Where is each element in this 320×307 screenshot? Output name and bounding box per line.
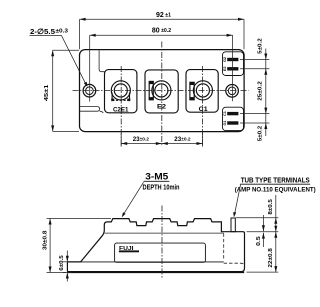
- tab pin: [231, 218, 235, 232]
- svg-text:5±0.2: 5±0.2: [258, 38, 264, 54]
- tab G2: [227, 58, 238, 61]
- dimension 80±0.2: [90, 35, 233, 101]
- svg-text:92 ±1: 92 ±1: [156, 12, 171, 19]
- tab C1: [227, 112, 238, 115]
- dimension 22±0.8: [247, 232, 279, 272]
- svg-text:23±0.2: 23±0.2: [133, 136, 150, 143]
- left end interior lines: [80, 50, 105, 113]
- dimension right 5/25/5: [240, 49, 269, 137]
- svg-text:3-M5: 3-M5: [145, 171, 168, 181]
- svg-text:(AMP NO.110 EQUIVALENT): (AMP NO.110 EQUIVALENT): [235, 187, 316, 194]
- svg-text:C1: C1: [199, 106, 208, 113]
- terminal block C1: [186, 70, 218, 113]
- mounting hole right: [226, 85, 239, 98]
- side centerline: [161, 206, 163, 278]
- dimension 45±1: [53, 50, 79, 131]
- svg-text:TUB TYPE TERMINALS: TUB TYPE TERMINALS: [241, 176, 310, 185]
- svg-text:2-∅5.5: 2-∅5.5: [30, 27, 55, 36]
- dimension 30±0.8: [47, 219, 112, 273]
- housing parting line: [105, 232, 224, 234]
- baseplate bottom thick edge: [67, 271, 244, 273]
- label plate: [115, 243, 206, 262]
- terminal block C2E1: [105, 70, 137, 113]
- housing outline: [67, 219, 244, 272]
- centerline C1 vertical: [202, 66, 204, 147]
- dimension 23±0.2 23±0.2: [121, 133, 202, 147]
- svg-text:±0.3: ±0.3: [56, 29, 69, 35]
- svg-text:6±0.5: 6±0.5: [59, 255, 65, 271]
- dimension 8±0.5: [236, 195, 278, 232]
- dimension 6±0.5: [63, 251, 72, 282]
- leader 3-M5: [124, 182, 144, 214]
- svg-text:C1: C1: [223, 111, 227, 116]
- svg-text:80 ±0.2: 80 ±0.2: [152, 28, 171, 35]
- svg-text:30±0.8: 30±0.8: [43, 231, 49, 251]
- tab terminal box lower: [223, 107, 244, 130]
- svg-text:25±0.2: 25±0.2: [258, 81, 264, 101]
- svg-text:G1: G1: [223, 120, 227, 125]
- centerline E2 vertical: [161, 42, 163, 147]
- svg-text:G2: G2: [223, 57, 227, 62]
- svg-text:22±0.8: 22±0.8: [268, 248, 274, 268]
- tab G1: [227, 121, 238, 124]
- svg-text:E2: E2: [223, 66, 227, 71]
- leader TUB: [235, 185, 241, 215]
- terminal block E2: [145, 70, 178, 113]
- baseplate: [67, 262, 241, 272]
- svg-text:0.5: 0.5: [256, 236, 262, 246]
- centerline C2E1 vertical: [120, 66, 122, 147]
- body outline: [80, 50, 245, 132]
- centerline horizontal: [73, 90, 249, 92]
- hidden dashed outline right: [224, 234, 245, 268]
- dimension 0.5: [262, 215, 264, 247]
- svg-text:8±0.5: 8±0.5: [268, 199, 274, 215]
- mounting hole left: [83, 84, 96, 97]
- svg-text:23±0.2: 23±0.2: [174, 136, 191, 143]
- tab E2: [227, 67, 238, 70]
- svg-text:5±0.2: 5±0.2: [258, 126, 264, 142]
- svg-text:DEPTH 10min: DEPTH 10min: [143, 185, 180, 192]
- tab terminal box upper: [223, 52, 244, 76]
- svg-text:45±1: 45±1: [44, 84, 50, 101]
- dimension 92±1: [80, 19, 244, 49]
